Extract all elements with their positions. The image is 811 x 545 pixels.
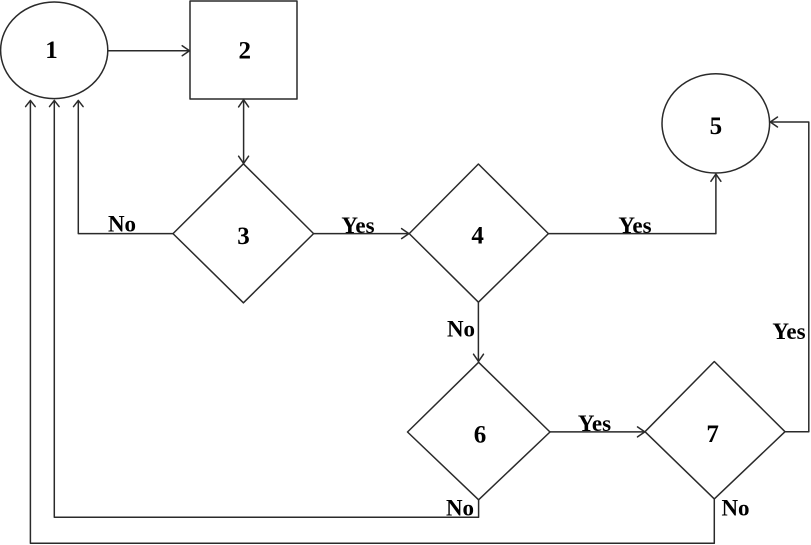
wire diamond7 bottom No to circle1: [30, 101, 714, 543]
svg-text:No: No: [108, 212, 136, 237]
arrowhead into diamond3 top: [239, 156, 249, 163]
svg-text:6: 6: [474, 422, 487, 449]
arrowhead into diamond7 left: [638, 427, 645, 437]
svg-text:1: 1: [45, 37, 58, 64]
arrowhead into circle5 right: [770, 117, 777, 127]
node 1 (circle): [1, 2, 108, 99]
wire diamond4 bottom No to diamond6: [477, 302, 479, 361]
svg-text:Yes: Yes: [618, 213, 651, 238]
wire rect2 to diamond3 (double arrow): [243, 100, 245, 164]
wire diamond4 right Yes to circle5: [549, 175, 716, 234]
svg-text:4: 4: [471, 223, 484, 250]
node 3 (diamond): [173, 164, 314, 303]
wire diamond6 bottom No to circle1: [54, 101, 478, 517]
svg-text:5: 5: [710, 113, 723, 140]
svg-text:2: 2: [239, 38, 252, 65]
arrowhead into circle5 bottom: [711, 174, 721, 181]
wire diamond7 right Yes to circle5: [771, 122, 809, 432]
arrowhead into circle1 (from diamond7 No): [26, 100, 36, 106]
wire diamond3 left No to circle1: [78, 101, 173, 233]
node 4 (diamond): [409, 164, 548, 302]
node 5 (circle): [662, 74, 770, 173]
arrowhead into circle1 (from diamond6 No): [50, 100, 60, 106]
svg-text:7: 7: [706, 421, 719, 448]
svg-text:No: No: [446, 496, 474, 521]
wire circle1 to rect2: [108, 50, 189, 52]
node 7 (diamond): [645, 362, 785, 499]
arrowhead into rect2 left: [182, 46, 189, 56]
svg-text:Yes: Yes: [341, 213, 374, 238]
arrowhead into diamond4 left: [402, 229, 409, 239]
arrowhead into diamond6 top: [474, 354, 484, 361]
svg-text:No: No: [447, 317, 475, 342]
svg-text:Yes: Yes: [578, 411, 611, 436]
svg-text:Yes: Yes: [772, 319, 805, 344]
node 2 (rectangle): [190, 1, 297, 99]
wire diamond3 to diamond4 Yes: [314, 233, 409, 235]
node 6 (diamond): [408, 362, 551, 500]
svg-text:3: 3: [237, 223, 250, 250]
svg-text:No: No: [721, 496, 749, 521]
arrowhead into rect2 bottom: [239, 100, 249, 107]
wire diamond6 to diamond7 Yes: [550, 431, 645, 433]
arrowhead into circle1 (from diamond3 No): [74, 100, 84, 106]
